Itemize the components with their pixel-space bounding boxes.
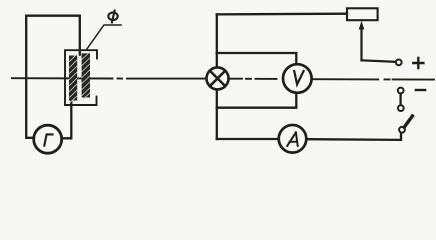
wire: photocell bottom lead down to galvanometer xyxy=(63,100,71,138)
wire: left loop top xyxy=(26,15,79,17)
wire: wiper to plus terminal xyxy=(362,60,395,62)
wire: voltmeter top branch xyxy=(217,53,296,63)
lamp (circle with X) xyxy=(207,67,229,89)
optical axis (dash-dot center line) xyxy=(12,78,434,79)
photocell right plate (hatched) xyxy=(82,52,90,101)
wire: ammeter to switch xyxy=(308,134,401,140)
wire: photocell top lead xyxy=(79,16,81,55)
ammeter A xyxy=(279,125,307,153)
wire: bottom to ammeter xyxy=(217,138,278,140)
minus terminal circle xyxy=(398,88,404,94)
voltmeter V xyxy=(283,64,312,93)
switch blade (open) xyxy=(404,116,412,127)
letter A, drawn as path xyxy=(287,132,298,146)
wire: lamp bottom lead xyxy=(216,90,218,139)
letter G (Cyrillic Ge), drawn as path xyxy=(44,134,52,145)
wire: switch to minus terminal xyxy=(399,94,401,105)
wire: voltmeter bottom branch xyxy=(217,94,296,107)
switch upper contact xyxy=(398,105,404,111)
galvanometer G xyxy=(34,125,62,153)
leader line for flux label xyxy=(87,25,121,49)
plus terminal circle xyxy=(396,60,402,66)
label F (luminous flux), drawn as path xyxy=(108,11,117,23)
photocell left plate (hatched) xyxy=(69,54,77,103)
wire: lamp top lead xyxy=(216,14,218,66)
letter V, drawn as path xyxy=(294,71,303,84)
photocell envelope bracket xyxy=(65,50,97,105)
switch pivot contact xyxy=(399,127,405,133)
potentiometer (rheostat) box xyxy=(347,8,378,20)
wiper arrow xyxy=(359,21,365,61)
plus sign xyxy=(413,58,423,68)
minus sign xyxy=(416,89,425,91)
wire: right circuit top xyxy=(217,13,347,16)
wire: left loop left side down to galvanometer xyxy=(26,16,32,138)
